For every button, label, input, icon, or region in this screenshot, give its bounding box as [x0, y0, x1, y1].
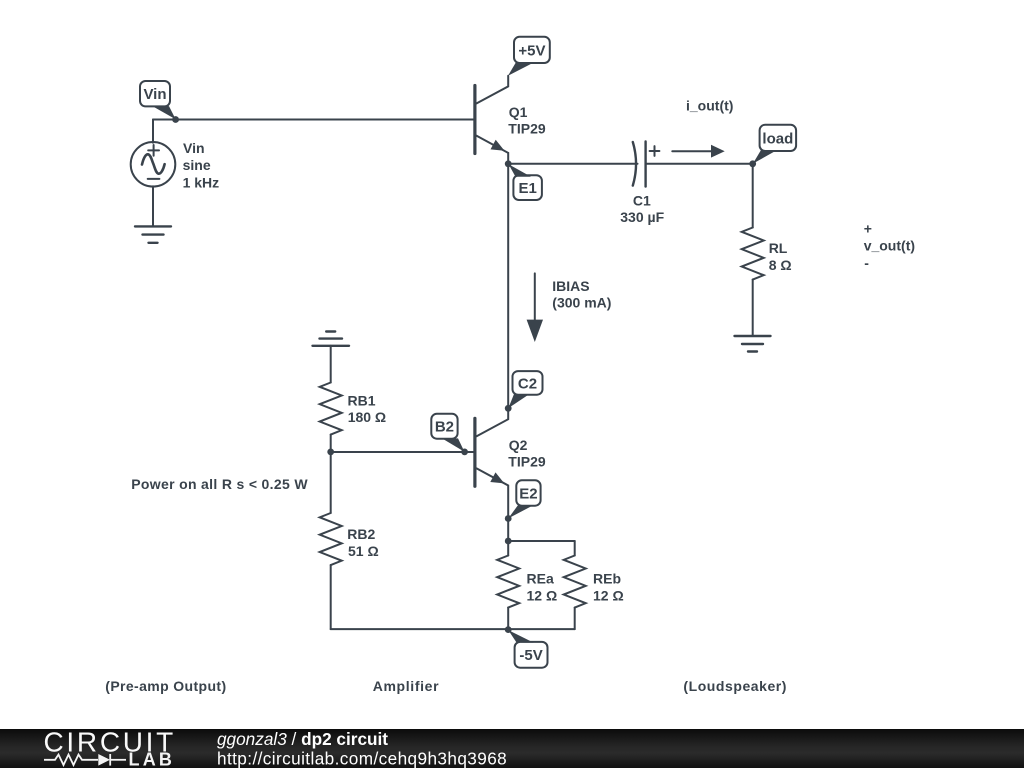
node junction 5 — [461, 449, 468, 456]
svg-text:REa: REa — [527, 571, 554, 587]
svg-text:B2: B2 — [435, 419, 454, 436]
svg-text:Amplifier: Amplifier — [373, 678, 440, 694]
node junction 6 — [327, 449, 334, 456]
wire: REa top lead — [507, 541, 509, 556]
wire: RB1 top lead from ground — [330, 346, 332, 383]
node junction 8 — [505, 538, 512, 545]
current arrow i_out(t) — [672, 145, 724, 158]
node junction 7 — [505, 515, 512, 522]
resistor RB1 180ohm — [320, 383, 342, 435]
svg-text:-5V: -5V — [519, 647, 542, 664]
label RL 8 Ohm — [769, 240, 792, 273]
svg-text:E1: E1 — [518, 180, 536, 197]
wire: Vin node down to source — [152, 120, 154, 143]
svg-text:sine: sine — [183, 157, 211, 173]
transistor Q2 TIP29 — [475, 408, 508, 518]
svg-text:12 Ω: 12 Ω — [593, 588, 624, 604]
net flag load — [753, 125, 796, 164]
label REb 12 Ohm — [593, 571, 624, 604]
wire: junction to REb branch — [508, 540, 575, 542]
svg-text:180 Ω: 180 Ω — [348, 409, 386, 425]
node junction 1 — [172, 116, 179, 123]
svg-text:E2: E2 — [519, 485, 537, 502]
caption Amplifier — [373, 678, 440, 694]
wire: E1 node down to C2 node — [507, 164, 509, 408]
wire: E1 node to C1 left plate — [508, 163, 637, 165]
transistor Q1 TIP29 — [475, 76, 508, 164]
svg-text:RL: RL — [769, 240, 788, 256]
label RB1 180 Ohm — [348, 392, 387, 425]
annotation + v_out(t) - — [864, 220, 915, 271]
svg-text:(Loudspeaker): (Loudspeaker) — [683, 678, 787, 694]
svg-text:+: + — [864, 220, 872, 236]
wire: REb bottom lead — [574, 608, 576, 630]
wire: load node down to RL — [752, 164, 754, 228]
wire: REa bottom lead — [507, 608, 509, 630]
node junction 2 — [505, 160, 512, 167]
ground (below RL) — [735, 336, 771, 352]
svg-text:12 Ω: 12 Ω — [527, 588, 558, 604]
voltage source V1 (Vin, sine) — [131, 142, 176, 187]
net flag -5V — [508, 630, 547, 668]
node junction 4 — [505, 405, 512, 412]
svg-text:ggonzal3 / dp2 circuit: ggonzal3 / dp2 circuit — [217, 729, 388, 749]
svg-text:v_out(t): v_out(t) — [864, 238, 915, 254]
wire: base rail to Q2 — [331, 451, 475, 453]
wire: RL bottom to ground — [752, 280, 754, 337]
label Q2 TIP29 — [508, 437, 546, 470]
net flag E2 — [508, 480, 540, 518]
ground (inverted, above RB1) — [313, 332, 350, 346]
resistor REb 12ohm — [564, 556, 586, 608]
wire: C1 right plate to load node — [646, 163, 753, 165]
net flag +5V — [508, 37, 550, 76]
svg-text:RB1: RB1 — [348, 392, 376, 408]
label Q1 TIP29 — [508, 104, 546, 137]
svg-text:8 Ω: 8 Ω — [769, 257, 792, 273]
wire: REb top lead — [574, 541, 576, 556]
wire: bottom rail RB2 to REb — [331, 628, 575, 630]
label RB2 51 Ohm — [347, 526, 378, 559]
wire: RB2 bottom lead — [330, 565, 332, 629]
logo resistor-diode glyph — [44, 754, 126, 766]
svg-text:Q2: Q2 — [509, 437, 528, 453]
label IBIAS (300 mA) — [552, 278, 611, 311]
current arrow IBIAS — [527, 273, 543, 342]
svg-text:Power on all R s < 0.25 W: Power on all R s < 0.25 W — [131, 476, 308, 492]
wire: RB2 top lead to node — [330, 452, 332, 513]
svg-text:RB2: RB2 — [347, 526, 375, 542]
net flag C2 — [508, 371, 542, 408]
node junction 9 — [505, 626, 512, 633]
svg-text:-: - — [864, 255, 869, 271]
svg-text:REb: REb — [593, 571, 621, 587]
svg-text:i_out(t): i_out(t) — [686, 98, 733, 114]
wire: Vin node to Q1 base — [153, 119, 475, 121]
svg-text:Vin: Vin — [143, 86, 166, 103]
svg-text:Q1: Q1 — [509, 104, 528, 120]
label C1 330 uF — [620, 193, 664, 225]
annotation Power on all R s — [131, 476, 308, 492]
svg-text:http://circuitlab.com/cehq9h3h: http://circuitlab.com/cehq9h3hq3968 — [217, 748, 507, 768]
resistor RL 8ohm — [742, 228, 764, 280]
svg-text:TIP29: TIP29 — [508, 121, 546, 137]
label i_out(t) — [686, 98, 733, 114]
resistor RB2 51ohm — [320, 513, 342, 565]
resistor REa 12ohm — [497, 556, 519, 608]
caption (Loudspeaker) — [683, 678, 787, 694]
label: Vin sine 1 kHz — [183, 140, 220, 190]
capacitor C1 330uF (polarized) — [633, 142, 660, 187]
svg-text:IBIAS: IBIAS — [552, 278, 589, 294]
net flag B2 — [431, 414, 464, 452]
wire: RB1 bottom lead — [330, 435, 332, 453]
svg-text:(Pre-amp Output): (Pre-amp Output) — [105, 678, 226, 694]
svg-text:+5V: +5V — [518, 42, 545, 59]
svg-text:(300 mA): (300 mA) — [552, 295, 611, 311]
svg-text:Vin: Vin — [183, 140, 205, 156]
node junction 3 — [749, 160, 756, 167]
ground (below source) — [135, 226, 171, 242]
svg-text:330 µF: 330 µF — [620, 209, 664, 225]
wire: E2 node down to junction — [507, 519, 509, 542]
caption (Pre-amp Output) — [105, 678, 226, 694]
label REa 12 Ohm — [527, 571, 558, 604]
net flag Vin — [140, 81, 176, 119]
svg-text:C2: C2 — [518, 375, 537, 392]
svg-text:LAB: LAB — [129, 750, 176, 768]
svg-text:TIP29: TIP29 — [508, 454, 546, 470]
wire: source bottom to ground — [152, 186, 154, 226]
svg-text:load: load — [762, 130, 793, 147]
svg-text:51 Ω: 51 Ω — [348, 543, 379, 559]
svg-text:1 kHz: 1 kHz — [183, 174, 220, 190]
svg-text:C1: C1 — [633, 193, 651, 209]
net flag E1 — [509, 164, 542, 200]
